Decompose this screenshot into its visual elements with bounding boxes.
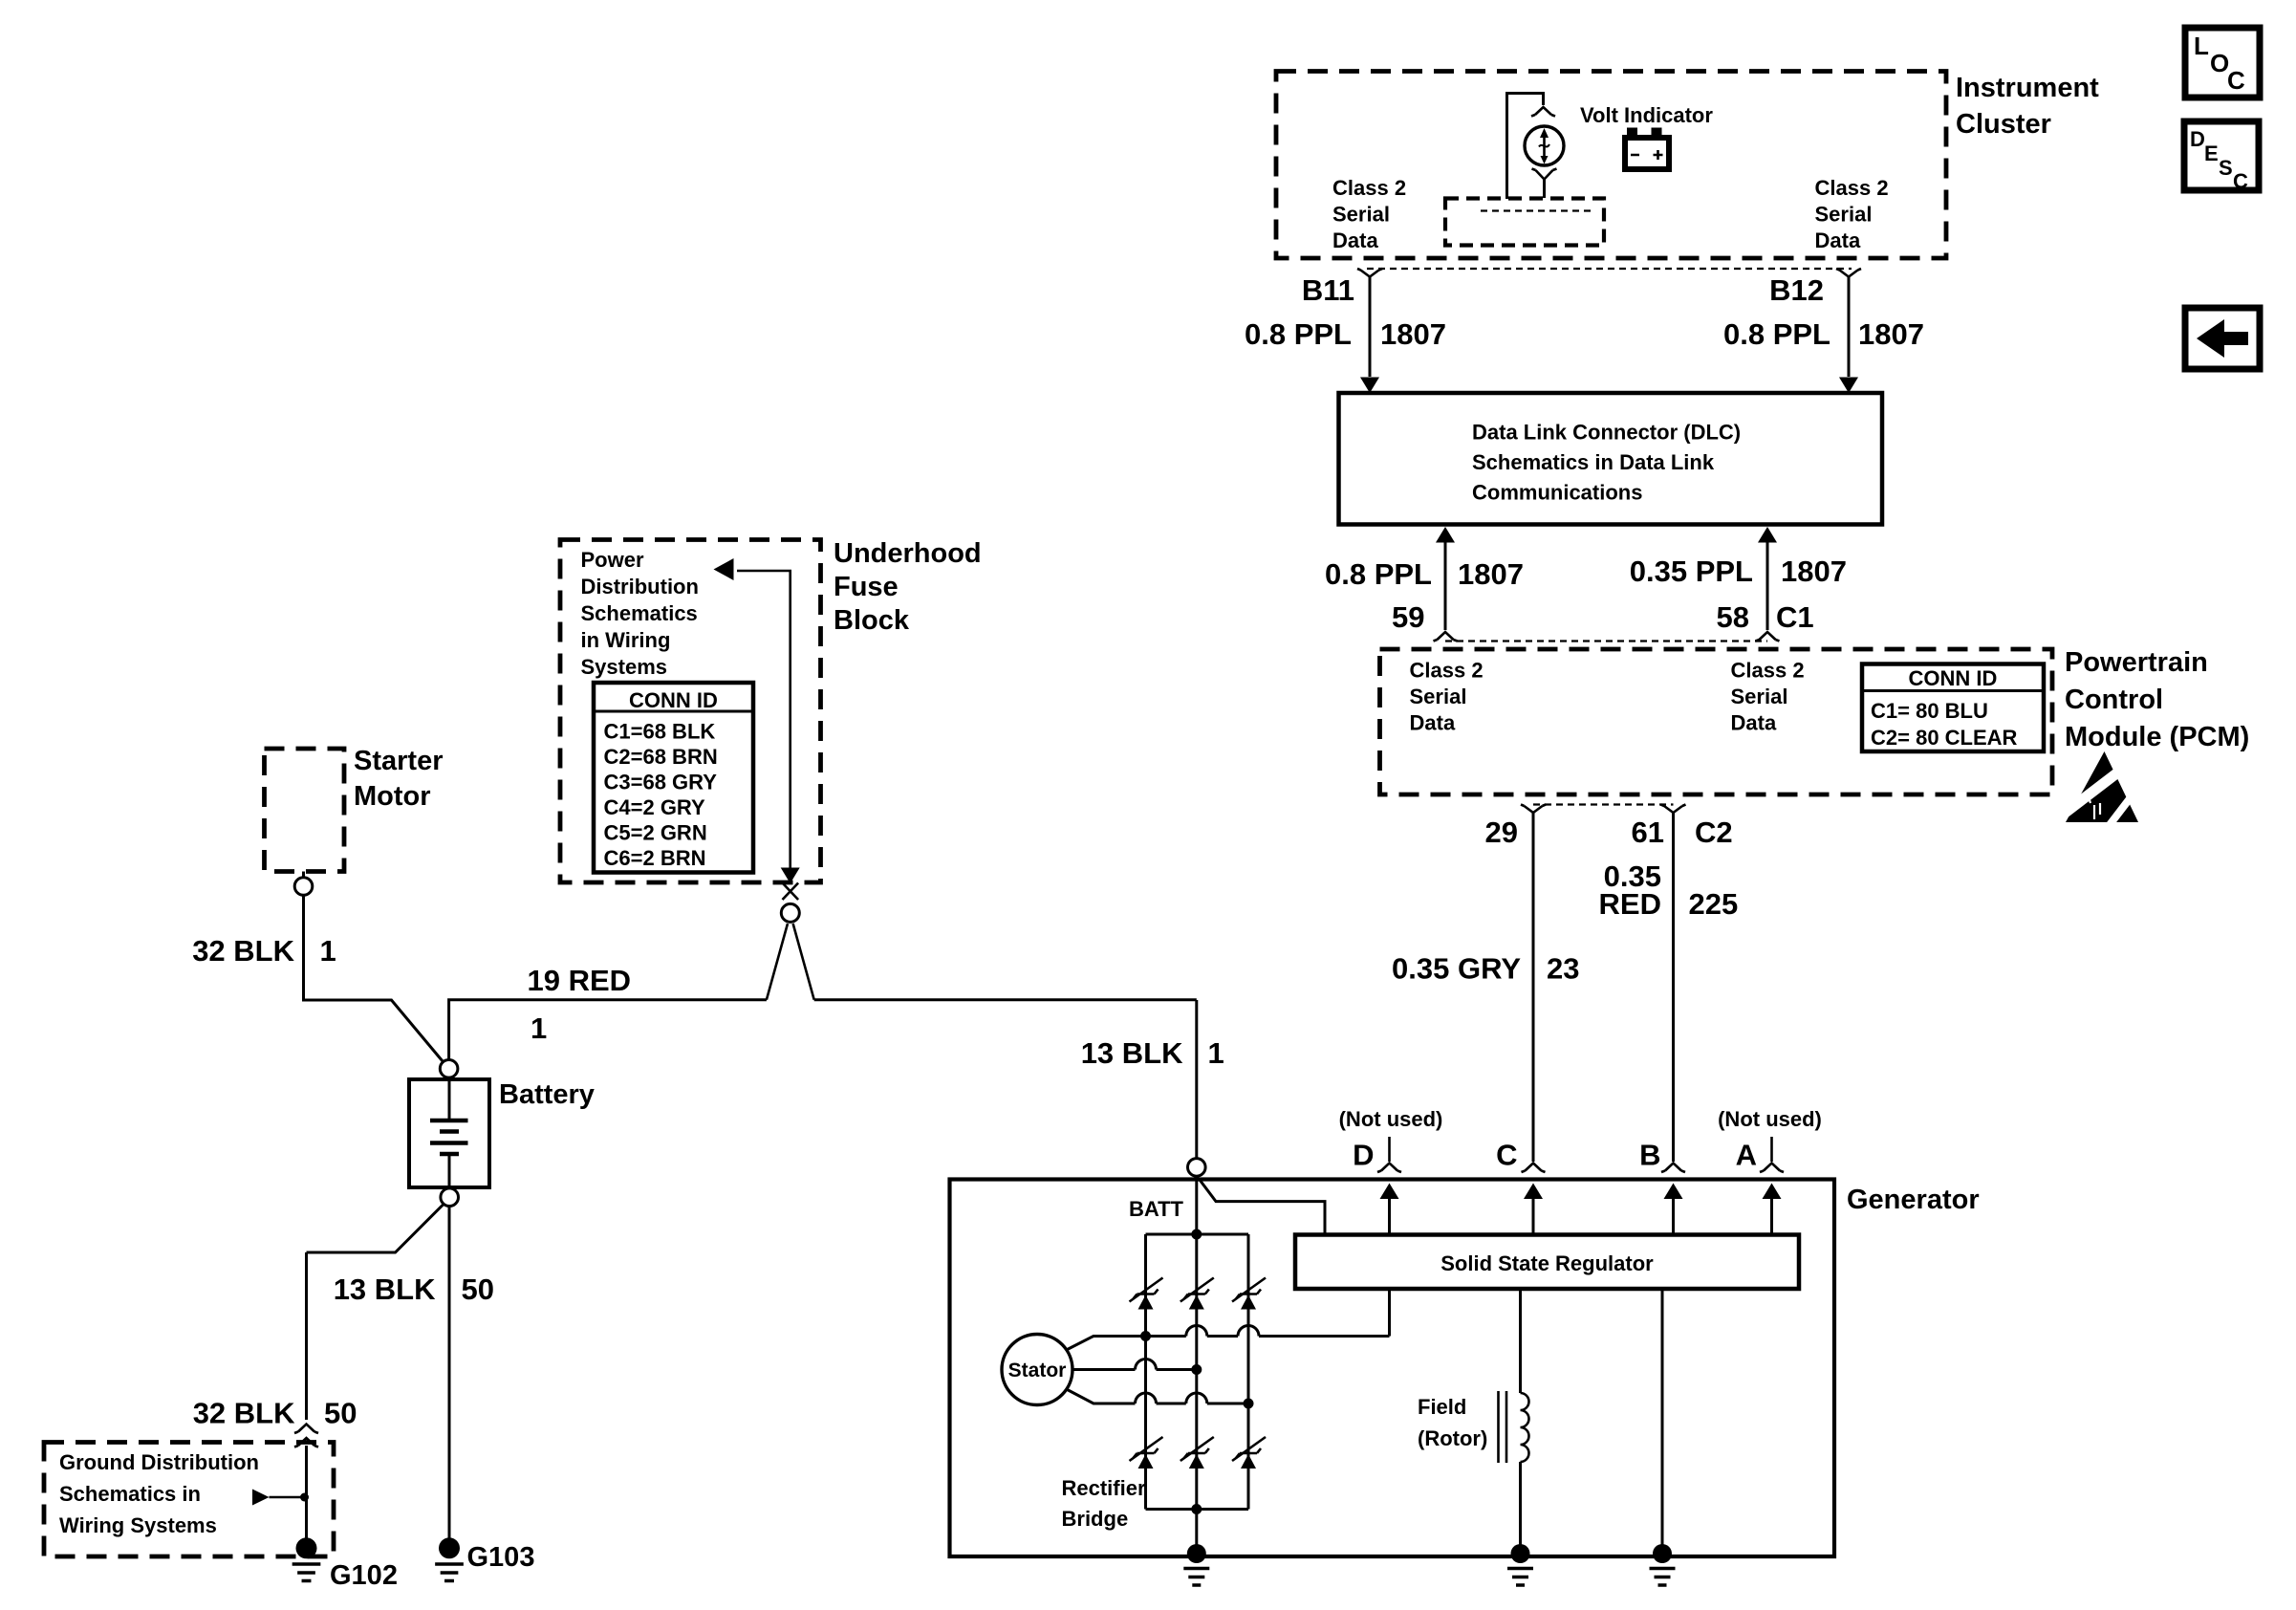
- svg-text:RED: RED: [1599, 887, 1661, 921]
- svg-text:B11: B11: [1302, 273, 1354, 307]
- svg-text:0.8 PPL: 0.8 PPL: [1325, 557, 1432, 591]
- svg-text:Data: Data: [1731, 711, 1777, 735]
- svg-text:S: S: [2219, 156, 2233, 180]
- rectifier bridge rails: [1146, 1234, 1249, 1510]
- wire 32 BLK 50 branch to G102: [307, 1205, 444, 1421]
- wire BATT to regulator: [1200, 1180, 1325, 1234]
- svg-text:Systems: Systems: [581, 655, 668, 679]
- terminal starter motor: [294, 872, 313, 896]
- wire label 0.8 PPL 1807 (B11): [1245, 317, 1446, 351]
- svg-text:Schematics: Schematics: [581, 601, 698, 625]
- pin C terminal chevron: [1522, 1164, 1546, 1173]
- wire label 32 BLK 1: [192, 934, 336, 968]
- pin A terminal chevron: [1760, 1164, 1784, 1173]
- svg-text:13 BLK: 13 BLK: [1081, 1036, 1183, 1070]
- pin D internal arrow to regulator: [1380, 1184, 1399, 1235]
- svg-text:G102: G102: [330, 1560, 398, 1591]
- back-arrow box: [2185, 308, 2260, 369]
- svg-text:Data: Data: [1815, 228, 1861, 252]
- svg-text:29: 29: [1485, 816, 1518, 849]
- svg-text:(Not used): (Not used): [1339, 1107, 1443, 1131]
- svg-text:Data: Data: [1410, 711, 1456, 735]
- svg-text:1: 1: [320, 934, 336, 968]
- module Ground Distribution (dashed box): [44, 1443, 334, 1557]
- svg-text:Serial: Serial: [1731, 685, 1788, 708]
- wire label 0.35 PPL 1807 (pin 58): [1630, 555, 1847, 588]
- wire stator phase 1: [1068, 1289, 1390, 1350]
- ground G102: [292, 1537, 321, 1580]
- wire 32 BLK below connector: [305, 1446, 308, 1538]
- ground field coil: [1507, 1544, 1533, 1585]
- pin B11 terminal: [1357, 269, 1382, 277]
- svg-text:Power: Power: [581, 548, 644, 572]
- svg-text:Serial: Serial: [1410, 685, 1467, 708]
- svg-text:Underhood: Underhood: [834, 538, 982, 569]
- module Powertrain Control Module PCM (dashed box): [1380, 649, 2053, 794]
- svg-text:C3=68 GRY: C3=68 GRY: [604, 771, 718, 794]
- svg-text:A: A: [1736, 1139, 1757, 1172]
- pin B12 terminal: [1836, 269, 1861, 277]
- terminal Y below gauge: [1532, 169, 1557, 199]
- svg-text:C5=2 GRN: C5=2 GRN: [604, 821, 707, 845]
- svg-text:Class 2: Class 2: [1410, 659, 1484, 683]
- svg-text:1807: 1807: [1458, 557, 1524, 591]
- junction top rail: [1191, 1229, 1202, 1240]
- svg-text:50: 50: [324, 1397, 357, 1430]
- module Generator (box): [950, 1180, 1835, 1557]
- svg-text:Class 2: Class 2: [1731, 659, 1805, 683]
- diode upper 1: [1138, 1295, 1154, 1310]
- svg-text:Rectifier: Rectifier: [1062, 1476, 1146, 1500]
- wire 19 RED battery to fuse block: [449, 1000, 1197, 1060]
- svg-text:CONN ID: CONN ID: [629, 688, 718, 712]
- note Power Distribution Schematics in Wiring Systems: [581, 548, 699, 679]
- svg-text:C: C: [1496, 1139, 1517, 1172]
- module Instrument Cluster (dashed box): [1276, 72, 1946, 259]
- svg-text:61: 61: [1632, 816, 1664, 849]
- note Ground Distribution Schematics in Wiring Systems: [59, 1450, 259, 1537]
- svg-text:13 BLK: 13 BLK: [334, 1273, 436, 1306]
- CONN ID table (fuse block): [594, 683, 753, 873]
- CONN ID table (PCM): [1862, 664, 2044, 752]
- svg-text:C: C: [2233, 169, 2248, 193]
- pin 29 terminal: [1521, 805, 1546, 814]
- svg-text:Starter: Starter: [354, 746, 444, 776]
- ground regulator: [1650, 1544, 1676, 1585]
- net Class 2 Serial Data (right, cluster): [1815, 176, 1889, 252]
- ESD sensitivity symbol: [2063, 751, 2143, 830]
- svg-text:C2: C2: [1695, 816, 1733, 849]
- wire label 13 BLK 1: [1081, 1036, 1224, 1070]
- pin D terminal chevron: [1377, 1164, 1401, 1173]
- pin D not-used stub: [1388, 1137, 1391, 1162]
- connector line C1 (thin dashed): [1481, 209, 1592, 211]
- wire DLC pin to PCM 58: [1758, 527, 1777, 630]
- pin A not-used stub: [1770, 1137, 1773, 1162]
- label Field (Rotor): [1418, 1395, 1487, 1450]
- svg-text:59: 59: [1392, 600, 1424, 634]
- svg-text:1807: 1807: [1380, 317, 1446, 351]
- svg-text:1807: 1807: [1781, 555, 1847, 588]
- inline connector chevrons on 32 BLK: [294, 1425, 318, 1447]
- stator winding: [1002, 1335, 1072, 1405]
- terminal battery positive: [440, 1060, 458, 1078]
- svg-text:Control: Control: [2065, 685, 2163, 715]
- svg-text:1: 1: [531, 1012, 547, 1045]
- svg-text:C4=2 GRY: C4=2 GRY: [604, 795, 706, 819]
- svg-text:58: 58: [1717, 600, 1749, 634]
- wire regulator to ground: [1661, 1289, 1664, 1552]
- svg-text:D: D: [1353, 1139, 1374, 1172]
- field rotor coil L1: [1499, 1289, 1529, 1552]
- wire PCM 61 to generator B: [1672, 813, 1675, 1162]
- svg-text:1807: 1807: [1858, 317, 1924, 351]
- diode upper 3: [1241, 1295, 1256, 1310]
- svg-text:225: 225: [1689, 887, 1739, 921]
- wire label 0.35 RED 225: [1599, 859, 1739, 921]
- svg-text:Module (PCM): Module (PCM): [2065, 722, 2249, 752]
- PCM bottom connector line C2 (thin dashed): [1533, 803, 1674, 805]
- svg-text:32 BLK: 32 BLK: [192, 934, 294, 968]
- svg-text:Powertrain: Powertrain: [2065, 647, 2208, 678]
- volt gauge G1 wiring: [1507, 94, 1556, 200]
- svg-text:0.8 PPL: 0.8 PPL: [1245, 317, 1352, 351]
- svg-text:C1=68 BLK: C1=68 BLK: [604, 720, 716, 744]
- ground G103: [435, 1537, 464, 1580]
- reference arrow to power distribution: [714, 558, 734, 580]
- svg-text:Serial: Serial: [1332, 203, 1390, 227]
- svg-text:Schematics in Data Link: Schematics in Data Link: [1472, 450, 1715, 474]
- svg-text:B12: B12: [1769, 273, 1824, 307]
- diode lower 1: [1138, 1454, 1154, 1469]
- svg-text:Data Link Connector (DLC): Data Link Connector (DLC): [1472, 421, 1741, 445]
- wire stator phase 3: [1068, 1390, 1254, 1409]
- svg-text:Solid State Regulator: Solid State Regulator: [1440, 1251, 1654, 1275]
- label Underhood Fuse Block: [834, 538, 982, 636]
- svg-text:Cluster: Cluster: [1956, 109, 2051, 140]
- pin 61 terminal: [1661, 805, 1686, 814]
- svg-text:Fuse: Fuse: [834, 572, 899, 602]
- diode lower 2: [1189, 1454, 1204, 1469]
- svg-text:C1= 80 BLU: C1= 80 BLU: [1871, 699, 1988, 723]
- svg-text:Ground Distribution: Ground Distribution: [59, 1450, 259, 1474]
- ground rectifier bridge: [1183, 1544, 1209, 1585]
- svg-text:Motor: Motor: [354, 781, 431, 812]
- svg-text:Class 2: Class 2: [1332, 176, 1406, 200]
- wire DLC pin to PCM 59: [1436, 527, 1455, 630]
- svg-text:Data: Data: [1332, 228, 1378, 252]
- svg-text:Volt Indicator: Volt Indicator: [1580, 103, 1713, 127]
- svg-text:0.35 PPL: 0.35 PPL: [1630, 555, 1753, 588]
- svg-text:Battery: Battery: [499, 1079, 595, 1110]
- pin B terminal chevron: [1661, 1164, 1685, 1173]
- inline connector X at fuse block: [783, 883, 799, 901]
- component Starter Motor (dashed box): [265, 749, 345, 872]
- label Powertrain Control Module (PCM): [2065, 647, 2249, 752]
- cluster internal connector (dashed sub-box): [1445, 199, 1604, 246]
- svg-text:50: 50: [462, 1273, 494, 1306]
- svg-text:(Not used): (Not used): [1718, 1107, 1822, 1131]
- wire 32 BLK starter to battery: [304, 896, 444, 1062]
- svg-text:0.8 PPL: 0.8 PPL: [1723, 317, 1830, 351]
- pin C internal arrow to regulator: [1524, 1184, 1543, 1235]
- pin 58 terminal chevron: [1756, 632, 1780, 642]
- terminal fuse block feed: [781, 903, 799, 922]
- svg-text:G103: G103: [467, 1542, 535, 1573]
- svg-text:Schematics in: Schematics in: [59, 1482, 201, 1506]
- Solid State Regulator U1: [1295, 1235, 1799, 1290]
- battery telltale icon: [1625, 128, 1669, 170]
- wire stator phase 2: [1072, 1360, 1202, 1375]
- svg-text:E: E: [2204, 141, 2219, 165]
- battery BAT1: [409, 1079, 489, 1187]
- terminal battery negative: [441, 1188, 459, 1207]
- net Class 2 Serial Data (left, PCM): [1410, 659, 1484, 735]
- svg-text:C2=68 BRN: C2=68 BRN: [604, 745, 718, 769]
- module Data Link Connector (DLC): [1339, 393, 1883, 525]
- wire B12 to DLC: [1839, 276, 1858, 393]
- svg-text:(Rotor): (Rotor): [1418, 1426, 1487, 1450]
- diode upper 2: [1189, 1295, 1204, 1310]
- svg-text:Distribution: Distribution: [581, 575, 699, 598]
- svg-text:CONN ID: CONN ID: [1909, 666, 1998, 690]
- wire label 13 BLK 50: [334, 1273, 494, 1306]
- module Underhood Fuse Block (dashed box): [560, 540, 821, 883]
- svg-text:C1: C1: [1776, 600, 1814, 634]
- LOC reference box: [2185, 28, 2260, 98]
- wire inside fuse block with arrow: [737, 571, 800, 883]
- svg-text:1: 1: [1208, 1036, 1224, 1070]
- wire BATT main feed through rectifier: [1195, 1176, 1198, 1552]
- label Instrument Cluster: [1956, 73, 2099, 140]
- svg-text:Serial: Serial: [1815, 203, 1873, 227]
- net Class 2 Serial Data (right, PCM): [1731, 659, 1805, 735]
- svg-text:19 RED: 19 RED: [528, 964, 632, 997]
- splice into fuse block (Y up): [767, 924, 814, 1000]
- svg-text:C2= 80 CLEAR: C2= 80 CLEAR: [1871, 726, 2018, 750]
- svg-text:Wiring Systems: Wiring Systems: [59, 1513, 217, 1537]
- wire label 0.8 PPL 1807 (pin 59): [1325, 557, 1524, 591]
- pin 59 terminal chevron: [1434, 632, 1458, 642]
- label Rectifier Bridge: [1062, 1476, 1146, 1531]
- cluster bottom connector line (thin dashed): [1367, 268, 1852, 270]
- svg-text:B: B: [1639, 1139, 1660, 1172]
- wire label 32 BLK 50: [193, 1397, 357, 1430]
- wire 13 BLK 50 battery to G103: [448, 1207, 451, 1539]
- svg-text:Generator: Generator: [1847, 1185, 1980, 1215]
- svg-text:0.35 GRY: 0.35 GRY: [1392, 952, 1521, 986]
- pin A internal arrow to regulator: [1763, 1184, 1782, 1235]
- svg-text:Instrument: Instrument: [1956, 73, 2099, 103]
- svg-text:23: 23: [1547, 952, 1579, 986]
- svg-text:C6=2 BRN: C6=2 BRN: [604, 846, 706, 870]
- wire B11 to DLC: [1360, 276, 1379, 393]
- pin B internal arrow to regulator: [1664, 1184, 1683, 1235]
- svg-text:C: C: [2227, 66, 2245, 95]
- svg-text:D: D: [2190, 127, 2205, 151]
- wire label 0.8 PPL 1807 (B12): [1723, 317, 1924, 351]
- svg-text:Communications: Communications: [1472, 481, 1642, 505]
- svg-text:in Wiring: in Wiring: [581, 628, 671, 652]
- svg-text:Stator: Stator: [1008, 1360, 1067, 1382]
- wire label 19 RED 1: [528, 964, 632, 1045]
- volt gauge G1: [1525, 126, 1564, 165]
- diode lower 3: [1241, 1454, 1256, 1469]
- net Class 2 Serial Data (left, cluster): [1332, 176, 1406, 252]
- DESC reference box: [2184, 121, 2259, 193]
- svg-text:L: L: [2194, 32, 2209, 60]
- svg-text:BATT: BATT: [1129, 1197, 1184, 1221]
- PCM top connector line (thin dashed): [1445, 640, 1767, 642]
- svg-text:32 BLK: 32 BLK: [193, 1397, 295, 1430]
- label Starter Motor: [354, 746, 444, 812]
- svg-text:Class 2: Class 2: [1815, 176, 1889, 200]
- junction bottom rail: [1191, 1504, 1202, 1514]
- wire label 0.35 GRY 23: [1392, 952, 1579, 986]
- svg-text:Bridge: Bridge: [1062, 1507, 1129, 1531]
- reference pointer to ground wire: [252, 1490, 309, 1506]
- svg-text:Block: Block: [834, 605, 910, 636]
- wire PCM 29 to generator C: [1532, 813, 1535, 1162]
- svg-text:Field: Field: [1418, 1395, 1466, 1419]
- wire 13 BLK drop to BATT: [1195, 1000, 1198, 1159]
- rectifier bridge columns: [1146, 1234, 1249, 1510]
